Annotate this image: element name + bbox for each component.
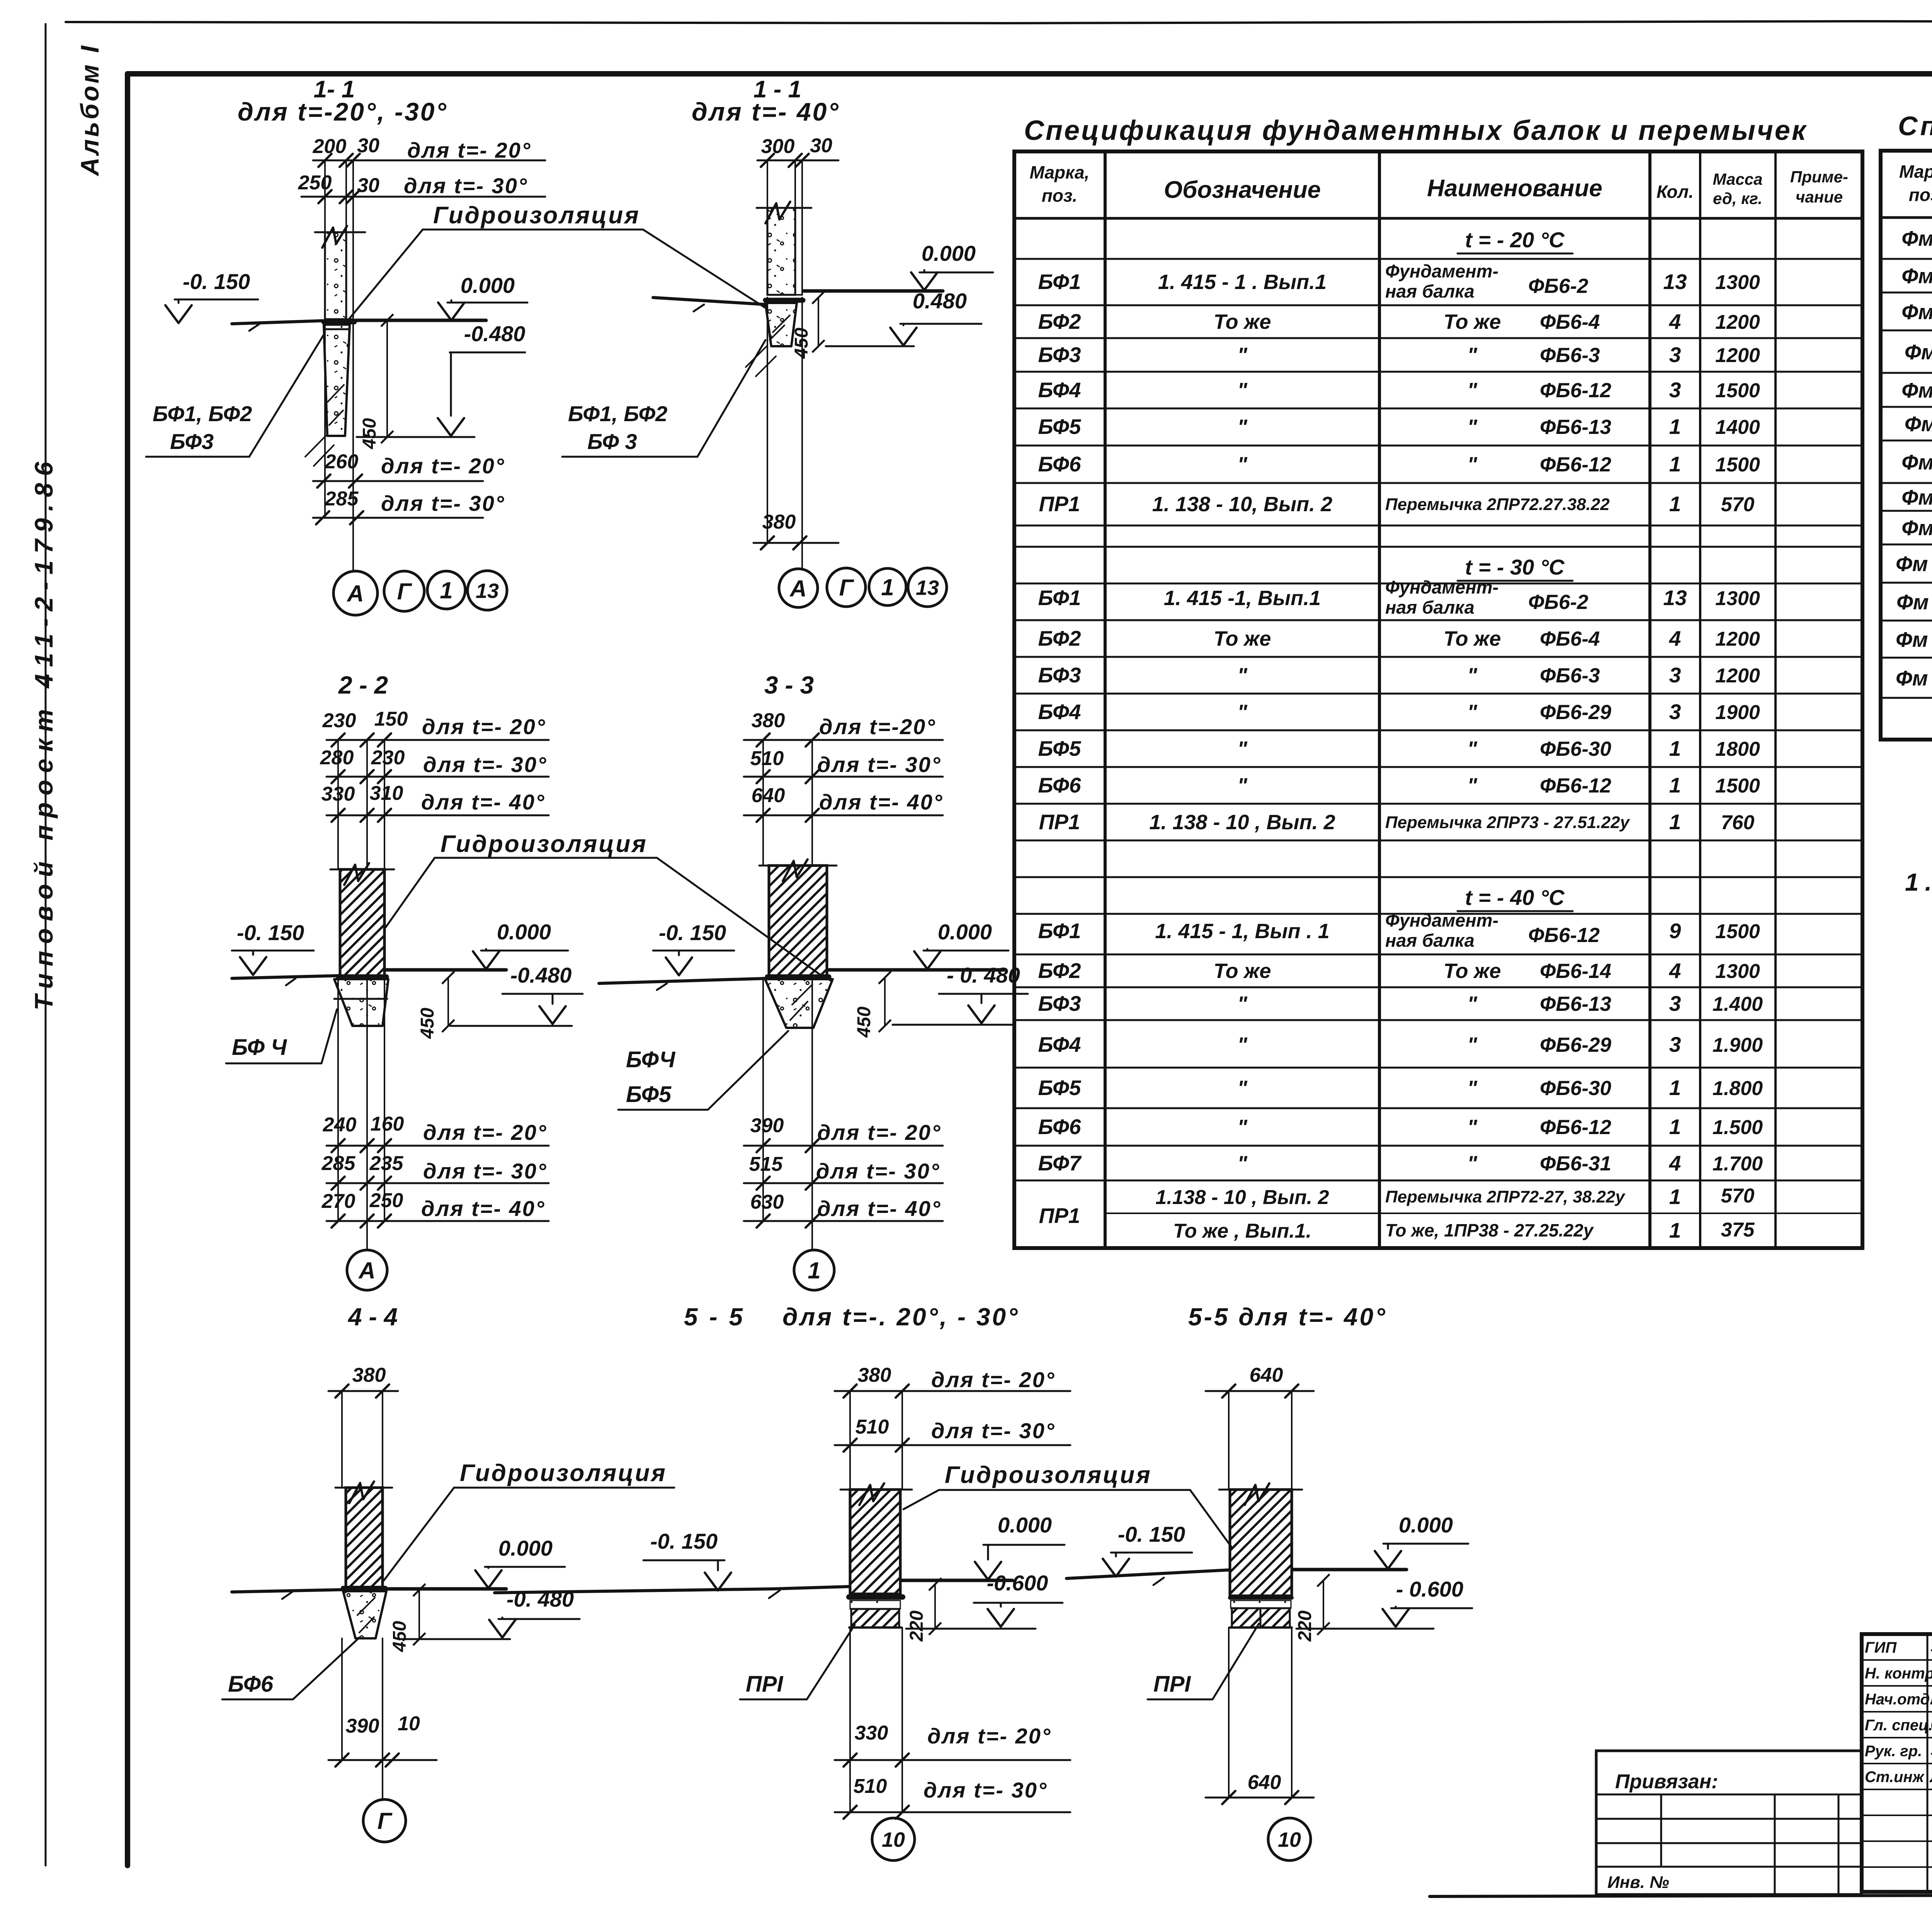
svg-text:ФБ6-29: ФБ6-29 <box>1540 701 1612 724</box>
svg-text:1500: 1500 <box>1715 775 1760 797</box>
svg-text:для t=- 20°: для t=- 20° <box>931 1367 1055 1392</box>
vertical dim 450 sec2-2 <box>447 978 449 1026</box>
svg-text:250: 250 <box>298 172 332 194</box>
section 3-3 foundation <box>765 979 833 1028</box>
svg-text:13: 13 <box>1663 270 1687 294</box>
svg-text:Гидроизоляция: Гидроизоляция <box>440 831 648 857</box>
svg-text:Нач.отд.: Нач.отд. <box>1865 1691 1932 1708</box>
svg-text:": " <box>1237 701 1248 724</box>
frame left <box>125 74 130 1866</box>
svg-text:ФБ6-4: ФБ6-4 <box>1540 311 1600 333</box>
svg-text:ФБ6-13: ФБ6-13 <box>1540 993 1611 1015</box>
svg-text:То же: То же <box>1444 627 1501 650</box>
svg-text:510: 510 <box>854 1775 887 1798</box>
svg-text:630: 630 <box>750 1191 784 1213</box>
level line -0.480 sec2-2 <box>450 1025 572 1027</box>
svg-text:Заводник: Заводник <box>1930 1741 1932 1760</box>
svg-text:ФБ6-12: ФБ6-12 <box>1540 379 1611 402</box>
section 5-5b guide lines <box>1228 1391 1230 1490</box>
svg-text:Пилипенко: Пилипенко <box>1930 1689 1932 1708</box>
svg-text:515: 515 <box>749 1153 783 1175</box>
svg-text:Н. контр: Н. контр <box>1865 1665 1932 1682</box>
svg-text:": " <box>1467 701 1478 724</box>
vertical dim 450 sec1-1a <box>386 320 388 437</box>
svg-text:1: 1 <box>881 575 894 600</box>
svg-text:": " <box>1237 774 1248 797</box>
svg-text:510: 510 <box>750 747 784 770</box>
svg-text:": " <box>1467 992 1478 1015</box>
svg-text:для t=- 30°: для t=- 30° <box>423 752 547 777</box>
svg-text:-0.480: -0.480 <box>464 321 526 346</box>
svg-text:БФ2: БФ2 <box>1038 310 1081 333</box>
svg-text:-0.480: -0.480 <box>510 963 572 987</box>
svg-text:То же: То же <box>1214 310 1271 333</box>
section 1-1a foundation beam <box>324 325 350 436</box>
svg-text:ФБ6-30: ФБ6-30 <box>1540 1077 1611 1100</box>
svg-text:3 - 3: 3 - 3 <box>764 671 814 699</box>
svg-text:для t=- 40°: для t=- 40° <box>819 790 943 814</box>
svg-text:ФБ6-4: ФБ6-4 <box>1540 628 1600 650</box>
partial row line ПР1 t-40 <box>1105 1213 1862 1214</box>
svg-text:-0. 150: -0. 150 <box>237 920 304 945</box>
svg-text:Спецификация фундаментов под: Спецификация фундаментов под колонны <box>1898 111 1932 141</box>
svg-text:ГИП: ГИП <box>1865 1639 1897 1656</box>
svg-text:для t=- 40°: для t=- 40° <box>692 97 840 126</box>
svg-text:": " <box>1467 415 1478 439</box>
svg-text:390: 390 <box>750 1114 784 1137</box>
svg-text:для t=- 30°: для t=- 30° <box>931 1418 1055 1443</box>
svg-text:10: 10 <box>882 1828 905 1851</box>
svg-text:ПР1: ПР1 <box>1039 1204 1080 1228</box>
svg-text:": " <box>1237 1033 1248 1056</box>
svg-text:для t=- 30°: для t=- 30° <box>404 173 528 198</box>
svg-text:ная балка: ная балка <box>1385 930 1475 951</box>
svg-text:Фм 2: Фм 2 <box>1901 264 1932 288</box>
svg-text:ФБ6-12: ФБ6-12 <box>1528 924 1600 947</box>
section 5-5a lintel ПР1 <box>850 1600 900 1609</box>
svg-text:Гидроизоляция: Гидроизоляция <box>945 1462 1152 1488</box>
svg-text:1: 1 <box>1669 1115 1681 1139</box>
svg-text:3: 3 <box>1669 663 1681 687</box>
svg-text:БФ Ч: БФ Ч <box>232 1035 287 1060</box>
svg-text:": " <box>1467 379 1478 402</box>
svg-text:220: 220 <box>1295 1611 1315 1642</box>
vertical dim 220 sec5-5b <box>1323 1580 1324 1629</box>
svg-text:1.700: 1.700 <box>1713 1153 1763 1175</box>
svg-text:450: 450 <box>854 1007 874 1038</box>
section 5-5b lintel ПР1 <box>1231 1600 1291 1608</box>
beams table grid <box>1014 151 1862 1248</box>
svg-text:640: 640 <box>1250 1364 1283 1386</box>
svg-text:": " <box>1237 453 1248 476</box>
svg-text:5 - 5: 5 - 5 <box>684 1303 745 1331</box>
section 4-4 waterproofing band <box>343 1586 385 1590</box>
svg-text:для t=- 30°: для t=- 30° <box>423 1159 547 1183</box>
footings table grid <box>1881 151 1932 740</box>
svg-text:1300: 1300 <box>1715 587 1760 610</box>
axis circle 10 sec5-5b <box>1268 1818 1311 1861</box>
svg-text:0.000: 0.000 <box>461 273 515 298</box>
svg-text:БФ5: БФ5 <box>1038 736 1081 760</box>
svg-text:БФ6: БФ6 <box>1038 452 1081 476</box>
svg-text:ПР1: ПР1 <box>1039 492 1080 516</box>
svg-text:1800: 1800 <box>1715 738 1760 760</box>
svg-text:ная балка: ная балка <box>1385 281 1475 301</box>
level line -0.480 sec3-3 <box>893 1024 1012 1026</box>
svg-text:Спецификация фундаментных бало: Спецификация фундаментных балок и перемы… <box>1024 115 1807 146</box>
svg-text:То же, 1ПР38 - 27.25.22у: То же, 1ПР38 - 27.25.22у <box>1385 1220 1594 1240</box>
vertical dim 450 sec1-1b <box>818 298 819 346</box>
svg-text:310: 310 <box>370 782 403 804</box>
svg-text:570: 570 <box>1721 493 1755 516</box>
sheet top edge <box>66 21 1932 23</box>
axis circle А sec2-2 <box>347 1250 387 1290</box>
svg-text:1: 1 <box>1669 736 1681 760</box>
svg-text:ФБ6-2: ФБ6-2 <box>1528 275 1588 298</box>
svg-text:0.000: 0.000 <box>922 241 976 265</box>
svg-text:БФ3: БФ3 <box>1038 663 1081 687</box>
svg-text:Гидроизоляция: Гидроизоляция <box>433 202 640 229</box>
svg-text:3: 3 <box>1669 992 1681 1015</box>
section 1-1b guide lines <box>767 160 768 208</box>
svg-text:ФБ6-14: ФБ6-14 <box>1540 960 1611 983</box>
svg-text:БФ5: БФ5 <box>1038 415 1081 439</box>
svg-text:160: 160 <box>371 1113 404 1135</box>
svg-text:для t=- 20°: для t=- 20° <box>381 454 505 478</box>
svg-text:13: 13 <box>916 576 939 599</box>
svg-text:-0. 150: -0. 150 <box>1118 1522 1185 1546</box>
svg-text:330: 330 <box>855 1722 888 1744</box>
svg-text:1: 1 <box>1669 415 1681 439</box>
svg-text:для t=- 30°: для t=- 30° <box>817 752 941 777</box>
svg-text:ФБ6-31: ФБ6-31 <box>1540 1152 1611 1175</box>
svg-text:Фм 1: Фм 1 <box>1901 226 1932 250</box>
svg-text:390: 390 <box>346 1715 379 1737</box>
svg-text:t = - 20 °C: t = - 20 °C <box>1465 228 1565 252</box>
svg-text:чание: чание <box>1796 188 1843 206</box>
svg-text:Гидроизоляция: Гидроизоляция <box>460 1460 667 1486</box>
svg-text:30: 30 <box>357 174 379 197</box>
svg-text:Рук. гр.: Рук. гр. <box>1865 1743 1922 1760</box>
frame top <box>128 71 1932 77</box>
svg-text:260: 260 <box>325 451 359 473</box>
level line -0.480 sec1-1a <box>357 436 474 438</box>
svg-text:ФБ6-2: ФБ6-2 <box>1528 591 1588 614</box>
svg-text:БФ6: БФ6 <box>228 1672 274 1697</box>
svg-text:450: 450 <box>359 418 380 449</box>
section 5-5a waterproofing band <box>849 1594 903 1600</box>
svg-text:БФ1, БФ2: БФ1, БФ2 <box>568 401 667 426</box>
svg-text:3: 3 <box>1669 378 1681 402</box>
section 5-5b ground left <box>1066 1570 1229 1578</box>
svg-text:150: 150 <box>374 708 408 730</box>
svg-text:270: 270 <box>321 1190 355 1213</box>
svg-text:510: 510 <box>855 1416 889 1438</box>
section 1-1a wall <box>325 232 346 319</box>
svg-text:0.000: 0.000 <box>1399 1513 1453 1537</box>
svg-text:БФ5: БФ5 <box>1038 1076 1081 1100</box>
svg-text:Фм 3: Фм 3 <box>1901 300 1932 324</box>
section 2-2 ground left <box>232 976 339 978</box>
svg-text:Г: Г <box>839 575 855 601</box>
svg-text:Сквирский: Сквирский <box>1930 1663 1932 1682</box>
svg-text:для t=-. 20°, - 30°: для t=-. 20°, - 30° <box>782 1303 1020 1331</box>
svg-text:Фундамент-: Фундамент- <box>1385 261 1498 281</box>
svg-text:БФ4: БФ4 <box>1038 1032 1081 1056</box>
svg-text:380: 380 <box>752 709 785 732</box>
svg-text:Фундамент-: Фундамент- <box>1385 577 1498 597</box>
svg-text:поз.: поз. <box>1042 185 1077 206</box>
section 1-1a ground line left <box>232 321 323 324</box>
svg-text:- 0. 480: - 0. 480 <box>947 963 1020 987</box>
svg-text:": " <box>1237 415 1248 439</box>
svg-text:1: 1 <box>1669 1185 1681 1209</box>
svg-text:БФ6: БФ6 <box>1038 773 1081 797</box>
svg-text:1500: 1500 <box>1715 379 1760 402</box>
svg-text:1500: 1500 <box>1715 920 1760 943</box>
svg-text:380: 380 <box>858 1364 891 1386</box>
svg-text:ФБ6-29: ФБ6-29 <box>1540 1034 1612 1056</box>
svg-text:для t=-20°, -30°: для t=-20°, -30° <box>238 97 448 126</box>
svg-text:": " <box>1467 1077 1478 1100</box>
svg-text:1300: 1300 <box>1715 271 1760 294</box>
svg-text:380: 380 <box>352 1364 386 1386</box>
section 1-1b ground line left <box>653 298 765 304</box>
section 2-2 floor right <box>386 968 506 972</box>
section 1-1b floor line right <box>804 289 943 293</box>
svg-text:БФ7: БФ7 <box>1038 1151 1082 1175</box>
svg-text:ПРI: ПРI <box>1153 1672 1191 1697</box>
level line -0.600 sec5-5a <box>906 1628 1036 1630</box>
svg-text:Фм 10: Фм 10 <box>1896 552 1932 576</box>
svg-text:БФ 3: БФ 3 <box>587 429 637 454</box>
svg-text:": " <box>1467 774 1478 797</box>
svg-text:1200: 1200 <box>1715 311 1760 333</box>
svg-text:": " <box>1237 1116 1248 1139</box>
svg-text:0.000: 0.000 <box>938 920 992 944</box>
svg-text:t = - 40 °C: t = - 40 °C <box>1465 885 1565 910</box>
section 3-3 ground left <box>599 978 768 983</box>
svg-text:Фм 5: Фм 5 <box>1901 378 1932 402</box>
axis circle Г sec4-4 <box>363 1799 406 1842</box>
svg-text:Г: Г <box>397 579 413 605</box>
svg-text:1900: 1900 <box>1715 701 1760 724</box>
svg-text:БФ3: БФ3 <box>170 429 214 454</box>
svg-text:": " <box>1467 1116 1478 1139</box>
svg-text:Обозначение: Обозначение <box>1164 177 1321 203</box>
svg-text:1: 1 <box>808 1258 820 1284</box>
svg-text:-0. 150: -0. 150 <box>650 1529 718 1553</box>
section 4-4 foundation <box>343 1591 386 1638</box>
svg-text:Перемычка 2ПР72-27, 38.22у: Перемычка 2ПР72-27, 38.22у <box>1385 1187 1626 1206</box>
svg-text:БФ4: БФ4 <box>1038 700 1081 724</box>
svg-text:1. 138 - 10 , Вып. 2: 1. 138 - 10 , Вып. 2 <box>1149 811 1335 834</box>
svg-text:1. 138 - 10, Вып. 2: 1. 138 - 10, Вып. 2 <box>1152 493 1332 516</box>
svg-text:": " <box>1467 664 1478 687</box>
svg-text:А: А <box>346 581 364 607</box>
svg-text:": " <box>1237 344 1248 367</box>
svg-text:Сквирский: Сквирский <box>1930 1715 1932 1734</box>
svg-text:1.900: 1.900 <box>1713 1034 1763 1056</box>
svg-text:Марка,: Марка, <box>1030 162 1090 182</box>
svg-text:Перемычка 2ПР73 - 27.51.22у: Перемычка 2ПР73 - 27.51.22у <box>1385 813 1631 832</box>
section 3-3 floor right <box>828 968 1005 972</box>
svg-text:5-5 для t=- 40°: 5-5 для t=- 40° <box>1188 1303 1387 1331</box>
svg-text:-0. 150: -0. 150 <box>183 269 250 294</box>
svg-text:БФ6: БФ6 <box>1038 1115 1081 1139</box>
svg-text:1.800: 1.800 <box>1713 1077 1763 1100</box>
svg-text:-0.600: -0.600 <box>987 1571 1048 1595</box>
svg-text:Фм 13: Фм 13 <box>1896 666 1932 690</box>
svg-text:ФБ6-12: ФБ6-12 <box>1540 1116 1611 1139</box>
section 5-5a guide lines <box>849 1391 851 1490</box>
svg-text:": " <box>1237 1077 1248 1100</box>
svg-text:поз.: поз. <box>1909 185 1932 205</box>
svg-text:30: 30 <box>810 134 832 157</box>
svg-text:4: 4 <box>1669 310 1681 333</box>
svg-text:ФБ6-13: ФБ6-13 <box>1540 416 1611 439</box>
svg-text:": " <box>1467 1152 1478 1175</box>
axis circle 10 sec5-5a <box>872 1818 915 1861</box>
svg-text:": " <box>1467 453 1478 476</box>
svg-text:9: 9 <box>1669 919 1681 943</box>
svg-text:1: 1 <box>1669 1218 1681 1242</box>
svg-text:": " <box>1237 737 1248 760</box>
section 3-3 guide lines <box>762 740 764 866</box>
svg-text:450: 450 <box>417 1008 438 1039</box>
svg-text:4: 4 <box>1669 626 1681 650</box>
title block signature table <box>1927 1634 1929 1892</box>
svg-text:1200: 1200 <box>1715 628 1760 650</box>
axis circles sec1-1a <box>333 571 378 615</box>
svg-text:ПР1: ПР1 <box>1039 810 1080 834</box>
svg-text:1: 1 <box>1669 1076 1681 1100</box>
svg-text:ФБ6-12: ФБ6-12 <box>1540 774 1611 797</box>
section 5-5a ground left <box>495 1589 773 1593</box>
level line -0.600 sec5-5b <box>1296 1628 1434 1630</box>
svg-text:1300: 1300 <box>1715 960 1760 983</box>
svg-text:Фм4: Фм4 <box>1905 340 1932 364</box>
svg-text:ПРI: ПРI <box>746 1672 784 1697</box>
svg-text:Г: Г <box>378 1808 393 1834</box>
svg-text:для t=- 40°: для t=- 40° <box>421 1196 545 1221</box>
svg-text:ФБ6-3: ФБ6-3 <box>1540 344 1600 367</box>
svg-text:1. 415 - 1, Вып . 1: 1. 415 - 1, Вып . 1 <box>1155 920 1329 943</box>
svg-text:10: 10 <box>398 1713 420 1735</box>
svg-text:1400: 1400 <box>1715 416 1760 439</box>
section 1-1b foundation beam <box>765 303 797 346</box>
svg-text:Фундамент-: Фундамент- <box>1385 910 1498 930</box>
svg-text:3: 3 <box>1669 700 1681 724</box>
svg-text:450: 450 <box>389 1621 410 1652</box>
svg-text:4: 4 <box>1669 1151 1681 1175</box>
svg-text:1.500: 1.500 <box>1713 1116 1763 1139</box>
svg-text:1: 1 <box>1669 492 1681 516</box>
section 4-4 floor right <box>384 1587 506 1591</box>
section 5-5a wall (hatched) <box>850 1490 900 1594</box>
svg-text:Перемычка 2ПР72.27.38.22: Перемычка 2ПР72.27.38.22 <box>1385 495 1610 514</box>
svg-text:для t=- 30°: для t=- 30° <box>923 1778 1048 1802</box>
vertical dim 220 sec5-5a <box>934 1584 936 1629</box>
svg-text:Гл. спец.: Гл. спец. <box>1865 1717 1932 1734</box>
privyazan block border <box>1596 1751 1862 1895</box>
svg-text:Марка: Марка <box>1899 162 1932 182</box>
svg-text:Фм 9: Фм 9 <box>1901 516 1932 540</box>
svg-text:4 - 4: 4 - 4 <box>347 1303 398 1331</box>
svg-text:280: 280 <box>320 747 354 769</box>
svg-text:для t=-20°: для t=-20° <box>819 714 936 739</box>
title block outer border <box>1862 1634 1932 1892</box>
svg-text:для t=- 40°: для t=- 40° <box>817 1196 941 1221</box>
svg-text:ФБ6-12: ФБ6-12 <box>1540 453 1611 476</box>
svg-text:Привязан:: Привязан: <box>1615 1770 1718 1793</box>
svg-text:375: 375 <box>1721 1219 1755 1241</box>
svg-text:Фм6: Фм6 <box>1905 412 1932 436</box>
svg-text:БФ3: БФ3 <box>1038 343 1081 367</box>
svg-text:БФЧ: БФЧ <box>626 1047 676 1072</box>
svg-text:БФ1: БФ1 <box>1038 270 1081 294</box>
axis circles sec1-1b <box>779 569 818 607</box>
svg-text:380: 380 <box>762 511 796 533</box>
svg-text:Наименование: Наименование <box>1427 175 1602 202</box>
svg-text:Альбом I: Альбом I <box>75 43 104 177</box>
svg-text:": " <box>1467 1033 1478 1056</box>
svg-text:1: 1 <box>1669 810 1681 834</box>
svg-text:А: А <box>358 1258 375 1284</box>
svg-text:": " <box>1237 1152 1248 1175</box>
section 5-5b waterproofing band <box>1230 1596 1292 1600</box>
svg-text:1: 1 <box>1669 452 1681 476</box>
svg-text:Масса: Масса <box>1713 170 1763 188</box>
svg-text:285: 285 <box>321 1152 356 1175</box>
svg-text:Кол.: Кол. <box>1656 182 1694 202</box>
svg-text:Фм 8: Фм 8 <box>1901 485 1932 509</box>
svg-text:Заславский: Заславский <box>1930 1638 1932 1656</box>
section 3-3 wall (hatched) <box>769 866 827 978</box>
svg-text:для t=- 20°: для t=- 20° <box>423 1120 547 1145</box>
svg-text:ФБ6-3: ФБ6-3 <box>1540 664 1600 687</box>
svg-text:0.000: 0.000 <box>998 1513 1052 1537</box>
section 2-2 wall (hatched) <box>340 869 384 978</box>
svg-text:760: 760 <box>1721 811 1755 834</box>
svg-text:То же , Вып.1.: То же , Вып.1. <box>1173 1220 1311 1242</box>
svg-text:БФ3: БФ3 <box>1038 992 1081 1015</box>
svg-text:0.480: 0.480 <box>913 289 967 313</box>
frame bottom <box>1430 1895 1932 1896</box>
svg-text:ед, кг.: ед, кг. <box>1713 189 1762 207</box>
svg-text:БФ5: БФ5 <box>626 1082 672 1107</box>
svg-text:300: 300 <box>761 135 795 158</box>
svg-text:13: 13 <box>476 579 499 602</box>
svg-text:Фм 11: Фм 11 <box>1896 590 1932 614</box>
svg-text:Ст.инж: Ст.инж <box>1865 1769 1925 1786</box>
section 2-2 foundation <box>334 979 388 1026</box>
svg-text:То же: То же <box>1214 959 1271 983</box>
svg-text:10: 10 <box>1278 1828 1301 1851</box>
svg-text:То же: То же <box>1444 310 1501 333</box>
svg-text:То же: То же <box>1214 627 1271 650</box>
svg-text:235: 235 <box>369 1152 404 1175</box>
section 4-4 ground left <box>232 1590 344 1592</box>
svg-text:Типовой проект 411-2-179.86: Типовой проект 411-2-179.86 <box>29 455 58 1010</box>
svg-text:То же: То же <box>1444 959 1501 983</box>
axis circle 1 sec3-3 <box>794 1250 834 1290</box>
svg-text:для t=- 40°: для t=- 40° <box>421 790 545 814</box>
svg-text:А: А <box>789 576 806 602</box>
svg-text:для t=- 20°: для t=- 20° <box>422 714 546 739</box>
hatch strokes below footing <box>305 436 334 466</box>
svg-text:640: 640 <box>752 784 785 807</box>
